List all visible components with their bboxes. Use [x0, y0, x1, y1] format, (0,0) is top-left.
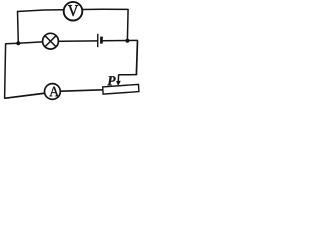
voltmeter V: [64, 2, 83, 21]
node right junction: [125, 39, 129, 43]
wire bottom row (through ammeter to rheostat): [4, 90, 103, 99]
battery cell: long thin positive plate: [97, 34, 99, 47]
battery cell: short thick negative plate: [100, 37, 103, 44]
wire right vertical (V branch, top-right corner down to node): [126, 9, 129, 41]
wire top (V branch): [17, 9, 128, 11]
label P: [107, 76, 115, 85]
wire far left vertical: [5, 43, 6, 98]
rheostat wiper arrow: [116, 75, 121, 86]
wire horizontal to wiper arrow: [118, 74, 137, 76]
ammeter A: [45, 84, 61, 100]
lamp (circle with X): [43, 33, 59, 49]
node left junction: [16, 41, 20, 45]
wire middle row left segment (node to battery): [5, 41, 97, 44]
rheostat P body (slanted rectangle): [103, 84, 139, 94]
wire far right vertical (down to rheostat wiper arm): [136, 40, 137, 74]
wire middle row right segment (battery to right corner): [102, 39, 137, 41]
wire left vertical (V branch, top-left corner down to node): [17, 11, 20, 44]
